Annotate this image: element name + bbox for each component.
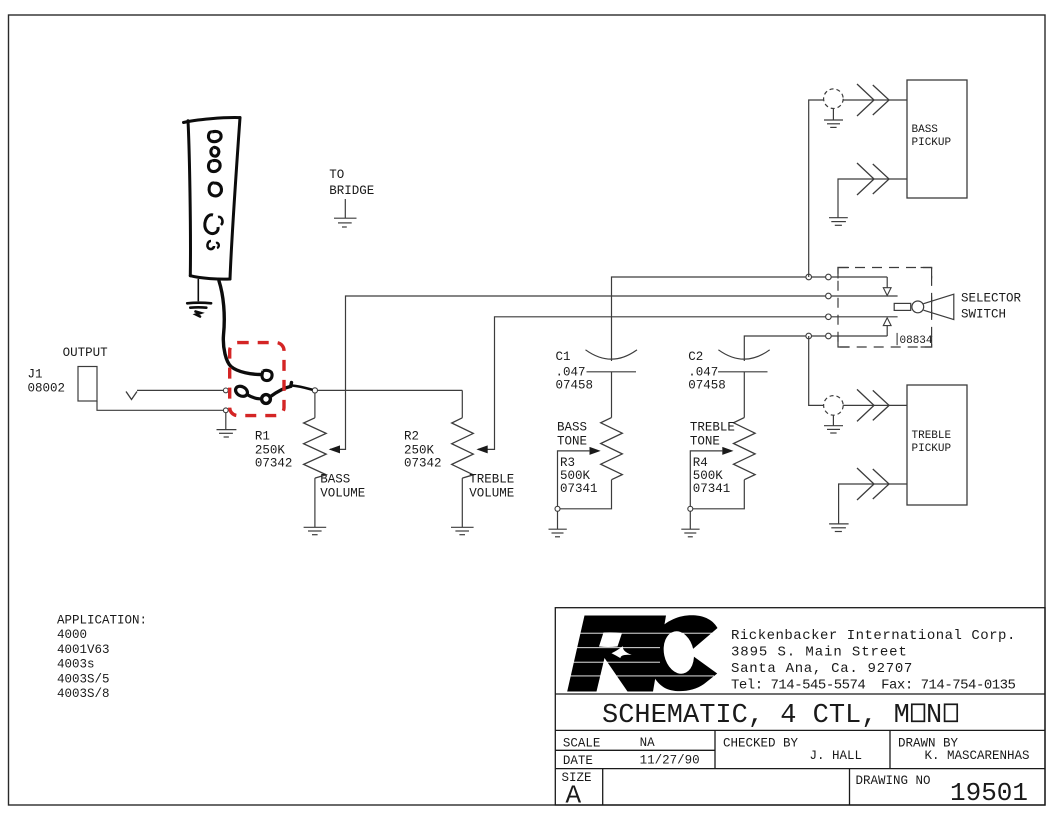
- hand-drawn switch oval: [234, 384, 249, 398]
- svg-text:TREBLE: TREBLE: [469, 473, 514, 487]
- svg-text:PICKUP: PICKUP: [912, 443, 952, 455]
- wire treble pickup cold: [839, 484, 907, 524]
- svg-text:TREBLE: TREBLE: [690, 421, 735, 435]
- wire main to R2: [318, 389, 463, 391]
- svg-text:SCALE: SCALE: [563, 737, 601, 751]
- svg-text:A: A: [566, 781, 582, 811]
- node selector terminal row1 b: [826, 274, 832, 280]
- wire row1 selector to C1: [612, 277, 888, 361]
- connector P4 chevrons: [857, 468, 874, 500]
- ground under R2: [451, 527, 474, 534]
- svg-text:500K: 500K: [560, 469, 591, 483]
- ground under bass pickup cold: [829, 218, 848, 226]
- svg-text:07342: 07342: [404, 457, 442, 471]
- svg-text:.047: .047: [688, 366, 718, 380]
- svg-text:4000: 4000: [57, 628, 87, 642]
- svg-text:07458: 07458: [556, 379, 594, 393]
- plate hole 1: [208, 131, 221, 141]
- svg-text:C2: C2: [688, 350, 703, 364]
- wire tip to switch terminal: [137, 389, 223, 391]
- svg-text:R2: R2: [404, 430, 419, 444]
- red annotation dashed box: [230, 343, 284, 416]
- ground under jack sleeve: [217, 430, 237, 437]
- ground under R4: [681, 529, 699, 537]
- wire row3 selector to R2 wiper: [478, 317, 898, 450]
- svg-text:R3: R3: [560, 456, 575, 470]
- svg-text:07342: 07342: [255, 457, 293, 471]
- capacitor C2: [718, 350, 769, 359]
- potentiometer R2 treble volume: [452, 418, 474, 478]
- wire R1 to ground: [314, 478, 316, 527]
- svg-text:3895 S. Main Street: 3895 S. Main Street: [731, 645, 908, 661]
- wire bass pickup cold: [838, 179, 907, 218]
- potentiometer R1 bass volume: [304, 418, 327, 478]
- svg-text:C1: C1: [556, 350, 571, 364]
- capacitor C1: [586, 350, 638, 359]
- wire row2 selector to R1 wiper: [330, 296, 898, 449]
- svg-text:J. HALL: J. HALL: [810, 749, 863, 763]
- svg-text:4003s: 4003s: [57, 658, 95, 672]
- J1 tip contact V: [126, 392, 137, 400]
- svg-text:500K: 500K: [693, 469, 724, 483]
- svg-text:PICKUP: PICKUP: [912, 137, 952, 149]
- title block frame: [555, 608, 1045, 805]
- svg-text:VOLUME: VOLUME: [320, 487, 365, 501]
- svg-text:11/27/90: 11/27/90: [640, 754, 700, 768]
- wire P1 to bass pickup: [843, 99, 907, 101]
- wire bass pickup hot to selector: [809, 100, 824, 277]
- wire R4 to ground: [689, 511, 691, 529]
- svg-text:BRIDGE: BRIDGE: [329, 184, 374, 198]
- plate hole 5b: [218, 217, 222, 225]
- wire R1 top lead: [314, 393, 316, 418]
- svg-text:4003S/5: 4003S/5: [57, 672, 110, 686]
- node selector terminal row1 a: [806, 274, 812, 280]
- svg-text:NA: NA: [640, 736, 656, 750]
- treble pickup box: [907, 385, 967, 505]
- R2 wiper: [476, 445, 487, 453]
- wire R2 to ground: [461, 478, 463, 527]
- svg-text:07341: 07341: [560, 482, 598, 496]
- plate hole 6: [207, 241, 214, 249]
- ground under R1: [304, 527, 327, 534]
- plate left leg: [197, 279, 199, 301]
- node R4 bottom junction: [688, 506, 693, 511]
- hand-drawn stroke to junction: [292, 386, 312, 390]
- svg-text:4001V63: 4001V63: [57, 643, 110, 657]
- svg-text:SCHEMATIC, 4 CTL, MONO: SCHEMATIC, 4 CTL, MONO: [602, 701, 958, 731]
- wire selector to treble pickup hot: [809, 336, 824, 405]
- svg-text:VOLUME: VOLUME: [469, 487, 514, 501]
- svg-text:TREBLE: TREBLE: [912, 430, 952, 442]
- svg-text:08002: 08002: [28, 382, 66, 396]
- hand-drawn control plate: [184, 118, 241, 280]
- svg-text:R4: R4: [693, 456, 708, 470]
- svg-text:SWITCH: SWITCH: [961, 308, 1006, 322]
- hand-drawn wire plate to switch: [219, 281, 261, 375]
- hand-drawn stroke oval to donut: [247, 395, 260, 399]
- R1 wiper: [329, 445, 340, 453]
- svg-text:K. MASCARENHAS: K. MASCARENHAS: [925, 749, 1030, 763]
- plate hole 3: [208, 160, 220, 171]
- bass pickup box: [907, 80, 967, 198]
- node sleeve terminal: [223, 408, 228, 413]
- svg-text:R1: R1: [255, 430, 270, 444]
- selector part number 08834: [896, 333, 898, 345]
- R3 wiper: [590, 447, 601, 455]
- svg-text:SELECTOR: SELECTOR: [961, 292, 1022, 306]
- svg-text:Santa Ana, Ca. 92707: Santa Ana, Ca. 92707: [731, 661, 913, 677]
- svg-text:07458: 07458: [688, 379, 726, 393]
- svg-text:DATE: DATE: [563, 754, 593, 768]
- svg-text:BASS: BASS: [320, 473, 350, 487]
- node selector terminal row3: [826, 314, 832, 320]
- connector P3 shield circle: [824, 396, 844, 416]
- wire R3 to ground: [557, 511, 559, 529]
- wire jack sleeve: [97, 401, 223, 410]
- svg-text:Rickenbacker International Cor: Rickenbacker International Corp.: [731, 628, 1016, 644]
- potentiometer R4 treble tone: [734, 418, 756, 480]
- svg-text:BASS: BASS: [557, 421, 587, 435]
- svg-text:CHECKED BY: CHECKED BY: [723, 737, 799, 751]
- connector P3 chevrons: [857, 389, 874, 421]
- svg-text:APPLICATION:: APPLICATION:: [57, 614, 147, 628]
- hand-drawn stroke donut to node: [271, 383, 292, 397]
- node R3 bottom junction: [555, 506, 560, 511]
- potentiometer R3 bass tone: [601, 418, 623, 480]
- svg-text:19501: 19501: [950, 778, 1028, 808]
- selector switch S1 body: [838, 268, 954, 348]
- wire selector arm down arrow: [886, 277, 888, 288]
- hand-drawn ground under plate: [187, 303, 211, 317]
- svg-text:250K: 250K: [404, 444, 435, 458]
- svg-text:TO: TO: [329, 168, 344, 182]
- svg-text:TONE: TONE: [557, 435, 587, 449]
- hand-drawn donut: [262, 395, 271, 404]
- connector P2 chevrons: [857, 163, 874, 195]
- svg-text:.047: .047: [556, 366, 586, 380]
- node selector terminal row2: [826, 293, 832, 299]
- wire selector arm up arrow: [886, 326, 888, 336]
- ground under treble pickup cold: [829, 524, 849, 532]
- svg-text:TONE: TONE: [690, 435, 720, 449]
- plate hole 4: [209, 183, 221, 196]
- hand-drawn wire end blob: [262, 370, 272, 380]
- svg-text:08834: 08834: [900, 335, 933, 347]
- svg-text:J1: J1: [28, 368, 43, 382]
- node selector terminal row4 a: [806, 333, 812, 339]
- wire P3 to treble pickup: [843, 404, 907, 406]
- node main junction at R1: [312, 388, 317, 393]
- svg-text:BASS: BASS: [912, 124, 939, 136]
- svg-text:Tel: 714-545-5574 Fax: 714-75: Tel: 714-545-5574 Fax: 714-754-0135: [731, 678, 1016, 694]
- svg-text:4003S/8: 4003S/8: [57, 687, 110, 701]
- plate hole 6b: [216, 243, 219, 248]
- ground under R3: [549, 529, 567, 537]
- svg-text:07341: 07341: [693, 482, 731, 496]
- connector P1 shield circle: [824, 89, 844, 109]
- node selector terminal row4 b: [826, 333, 832, 339]
- svg-text:DRAWING NO: DRAWING NO: [856, 774, 931, 788]
- connector P1 chevrons: [857, 84, 874, 116]
- plate hole 2: [211, 147, 219, 156]
- wire row4 selector to C2: [744, 336, 887, 361]
- plate hole 5: [205, 215, 218, 234]
- wire R2 top lead: [461, 390, 463, 417]
- R4 wiper: [722, 447, 733, 455]
- node switch terminal A: [223, 388, 228, 393]
- svg-text:250K: 250K: [255, 444, 286, 458]
- wire sleeve to ground: [225, 413, 227, 430]
- svg-text:OUTPUT: OUTPUT: [63, 346, 109, 360]
- ground under P1: [824, 109, 843, 128]
- ground under P3: [824, 415, 843, 433]
- RIC logo: [567, 615, 718, 691]
